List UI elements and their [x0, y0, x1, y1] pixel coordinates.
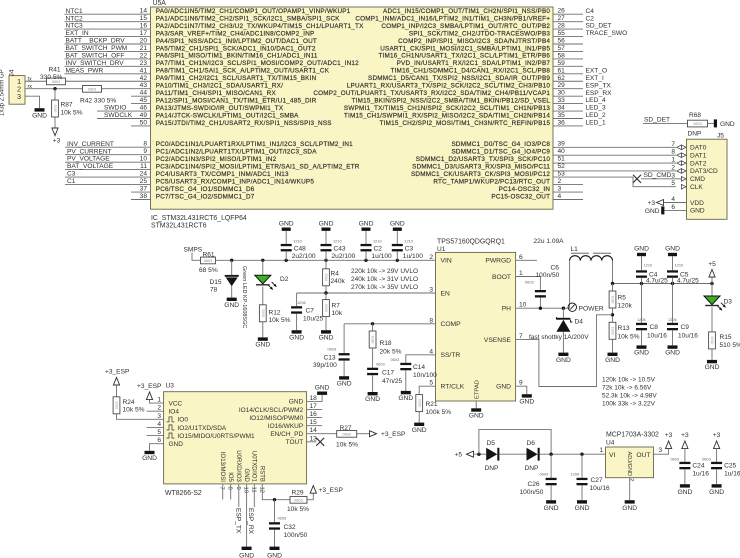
wire stub TOUT with no-fit cross: [307, 438, 325, 446]
svg-text:10u/16: 10u/16: [647, 332, 667, 339]
svg-text:SD_DET: SD_DET: [586, 23, 612, 30]
svg-text:BAT_SWITCH_PWM: BAT_SWITCH_PWM: [66, 45, 128, 52]
svg-text:GND: GND: [665, 350, 680, 357]
svg-text:50: 50: [140, 119, 148, 126]
svg-text:C7: C7: [306, 308, 315, 315]
svg-text:ESP_TX: ESP_TX: [586, 82, 612, 89]
wire (D5 to D6): [499, 453, 526, 455]
svg-text:29: 29: [558, 82, 566, 89]
svg-text:41: 41: [140, 67, 148, 74]
svg-text:100n/50: 100n/50: [520, 489, 544, 496]
svg-text:11: 11: [250, 487, 256, 493]
svg-text:72k 10k -> 6.56V: 72k 10k -> 6.56V: [602, 384, 652, 391]
svg-text:0603: 0603: [325, 273, 329, 281]
svg-text:PC15-OSC32_OUT: PC15-OSC32_OUT: [491, 193, 550, 200]
ground (C32): [270, 547, 280, 550]
svg-text:2: 2: [429, 254, 433, 261]
+3 supply arrow (below R87): [52, 128, 58, 136]
wire (rx junction to R87): [54, 89, 56, 100]
svg-text:GND: GND: [556, 357, 571, 364]
svg-text:+5: +5: [455, 452, 463, 459]
svg-text:D15: D15: [210, 279, 222, 286]
svg-text:R4: R4: [331, 270, 340, 277]
svg-text:PA13/JTMS-SWDIO/IR_OUT/SWPMI1_: PA13/JTMS-SWDIO/IR_OUT/SWPMI1_TX: [156, 105, 284, 112]
svg-text:D5: D5: [487, 440, 496, 447]
ground (ETPAD): [471, 408, 481, 411]
svg-text:53: 53: [558, 171, 566, 178]
svg-text:INV_CURRENT: INV_CURRENT: [67, 141, 114, 148]
svg-text:GND: GND: [544, 505, 559, 512]
svg-text:EN: EN: [441, 290, 450, 297]
svg-text:TIM15_CH1/SWPMI1_RX/SPI2_MISO/: TIM15_CH1/SWPMI1_RX/SPI2_MISO/I2C2_SDA/T…: [344, 112, 551, 119]
ground (C14): [401, 391, 411, 394]
svg-text:SD_DET: SD_DET: [644, 117, 670, 124]
regulator U1 TPS57160QDGQRQ1: [436, 239, 516, 401]
svg-text:LED_4: LED_4: [586, 97, 606, 104]
svg-text:0603: 0603: [261, 309, 265, 317]
svg-text:17: 17: [310, 403, 318, 410]
svg-text:R68: R68: [689, 112, 701, 119]
svg-text:SDMMC1_D5/CAN1_TX/SPI2_NSS/I2C: SDMMC1_D5/CAN1_TX/SPI2_NSS/I2C1_SDA/IR_O…: [368, 75, 550, 82]
svg-text:0603: 0603: [278, 516, 287, 521]
wire L1 to output rail: [612, 261, 614, 284]
svg-text:68 5%: 68 5%: [199, 267, 218, 274]
svg-text:15: 15: [140, 15, 148, 22]
wire BOOT to C6: [516, 277, 541, 291]
resistor R12: [259, 305, 290, 324]
svg-text:10: 10: [519, 302, 527, 309]
+3 supply arrow (left): [53, 138, 61, 145]
svg-text:330 5%: 330 5%: [40, 74, 63, 81]
diode D6 (DNP): [525, 440, 540, 472]
node SD_DET / resistor R68 (DNP): [643, 112, 735, 137]
+5 supply arrow (diode input): [455, 451, 487, 458]
svg-text:1u/100: 1u/100: [403, 253, 424, 260]
connector J5: [687, 133, 728, 220]
svg-text:PV_CURRENT: PV_CURRENT: [67, 148, 112, 155]
svg-text:2u2/100: 2u2/100: [292, 253, 316, 260]
svg-text:0603: 0603: [525, 280, 534, 285]
wire stubs U5A pins 2,3,4 (OSC32): [553, 185, 583, 200]
svg-text:100n/50: 100n/50: [284, 532, 308, 539]
svg-text:15: 15: [310, 419, 318, 426]
svg-text:4.7u/25: 4.7u/25: [677, 278, 699, 285]
svg-text:SWDCLK: SWDCLK: [104, 112, 133, 119]
svg-text:PWRGD: PWRGD: [485, 258, 511, 265]
svg-text:C3: C3: [405, 245, 414, 252]
svg-text:GND: GND: [469, 413, 484, 420]
svg-text:34: 34: [558, 105, 566, 112]
svg-text:PC1/ADC1IN2/LPUART1TX/LPTIM1_O: PC1/ADC1IN2/LPUART1TX/LPTIM1_OUT/I2C3_SD…: [156, 148, 317, 155]
wire PH node: [516, 261, 570, 310]
wire stubs U5A pins 44,45,50: [131, 96, 151, 126]
J5 data pin arrows: [677, 145, 686, 189]
svg-text:0603: 0603: [611, 296, 615, 304]
svg-text:C8: C8: [650, 324, 659, 331]
svg-text:1210: 1210: [333, 238, 342, 243]
ground (R21): [414, 423, 424, 426]
svg-text:1210: 1210: [675, 263, 684, 268]
wire bypass around D5 D6: [479, 429, 551, 454]
resistor R24: [113, 397, 145, 414]
svg-text:R42 330 5%: R42 330 5%: [80, 98, 116, 105]
wire (U3 GND pin 6 to ground): [150, 444, 164, 451]
regulator U4 MCP1703A-3302: [606, 431, 660, 477]
svg-text:PA3/SAR_VREF+/TIM2_CH4/ADC1IN8: PA3/SAR_VREF+/TIM2_CH4/ADC1IN8/COMP2_INP: [156, 30, 315, 37]
D4 note text: [529, 334, 589, 341]
ground (U1 pin 9): [522, 394, 532, 397]
svg-text:1206: 1206: [637, 317, 646, 322]
svg-text:RTC_TAMP1/WKUP2/PC13/RTC_OUT: RTC_TAMP1/WKUP2/PC13/RTC_OUT: [433, 178, 550, 185]
svg-text:J4: J4: [9, 69, 16, 76]
svg-text:PH: PH: [502, 306, 511, 313]
wire EN node: [297, 291, 436, 294]
svg-text:62: 62: [558, 75, 566, 82]
svg-text:PA2/ADC1IN7/TIM2_CH3/U2_TX/WKU: PA2/ADC1IN7/TIM2_CH3/U2_TX/WKUP4/TIM15_C…: [156, 23, 364, 30]
wire COMP node: [344, 322, 435, 325]
U5A pin numbers: [140, 8, 566, 200]
svg-text:4: 4: [157, 421, 161, 428]
svg-text:0603: 0603: [418, 399, 422, 407]
svg-text:IO0: IO0: [178, 417, 189, 424]
U4 pin numbers: [599, 447, 662, 481]
svg-text:C4: C4: [586, 8, 595, 15]
svg-text:17: 17: [140, 30, 148, 37]
svg-text:GND: GND: [677, 489, 692, 496]
svg-text:56: 56: [558, 38, 566, 45]
svg-text:PA9/TIM1_CH2/I2C1_SCL/USART1_T: PA9/TIM1_CH2/I2C1_SCL/USART1_TX/TIM15_BK…: [156, 75, 317, 82]
svg-text:GND: GND: [279, 220, 294, 227]
svg-text:9: 9: [143, 148, 147, 155]
svg-text:35: 35: [558, 112, 566, 119]
svg-text:LPUART1_RX/USART3_TX/SPI2_SCK/: LPUART1_RX/USART3_TX/SPI2_SCK/I2C2_SCL/T…: [347, 83, 551, 90]
svg-text:RT/CLK: RT/CLK: [441, 384, 465, 391]
svg-text:120k: 120k: [618, 303, 633, 310]
svg-text:C48: C48: [294, 245, 306, 252]
svg-text:0603: 0603: [391, 357, 400, 362]
svg-text:PA7/TIM1_CH1N/I2C3_SCL/SPI1_MO: PA7/TIM1_CH1N/I2C3_SCL/SPI1_MOSI/COMP2_O…: [156, 60, 359, 67]
svg-text:4.7u/25: 4.7u/25: [646, 278, 668, 285]
capacitor C5: [665, 246, 699, 285]
ground (C17): [368, 392, 378, 395]
svg-text:10u/16: 10u/16: [678, 332, 698, 339]
svg-text:INV_SWITCH_DRV: INV_SWITCH_DRV: [66, 60, 125, 67]
inductor L1: [534, 238, 613, 261]
+3_ESP supply arrow (R27): [357, 431, 406, 438]
svg-text:EN/CH_PD: EN/CH_PD: [270, 431, 303, 438]
svg-text:SWPMI1_TX/TIM15_CH1N/SPI2_SCK/: SWPMI1_TX/TIM15_CH1N/SPI2_SCK/I2C2_SCL/T…: [344, 105, 551, 112]
svg-text:SPI1_SCK/TIM2_CH2/JTDO-TRACESW: SPI1_SCK/TIM2_CH2/JTDO-TRACESWO/PB3: [409, 30, 551, 37]
ground (C26): [546, 500, 556, 503]
wire ESP_TX (U3 pin 9): [234, 484, 241, 534]
capacitor C7: [291, 293, 323, 330]
svg-text:10k 5%: 10k 5%: [336, 441, 358, 448]
resistor R27: [336, 425, 358, 448]
svg-text:R7: R7: [332, 302, 341, 309]
svg-text:C17: C17: [382, 369, 394, 376]
svg-text:11: 11: [140, 163, 147, 170]
svg-text:10u/25: 10u/25: [303, 316, 324, 323]
svg-text:tx: tx: [28, 77, 32, 83]
svg-text:1x3p 2.54mm GP: 1x3p 2.54mm GP: [0, 69, 6, 116]
svg-text:PC6/TSC_G4_IO1/SDMMC1_D6: PC6/TSC_G4_IO1/SDMMC1_D6: [156, 186, 255, 193]
ground (U3 pin 18): [315, 384, 330, 395]
svg-text:23: 23: [140, 60, 148, 67]
svg-text:GND: GND: [319, 334, 334, 341]
resistor R18: [369, 324, 401, 368]
svg-text:TPS57160QDGQRQ1: TPS57160QDGQRQ1: [437, 239, 505, 246]
svg-text:49: 49: [140, 112, 148, 119]
svg-text:46: 46: [140, 105, 148, 112]
svg-text:DNP: DNP: [485, 465, 500, 472]
svg-text:1206: 1206: [668, 317, 677, 322]
svg-text:IO13/MOSI: IO13/MOSI: [219, 452, 225, 482]
svg-text:6: 6: [157, 437, 161, 444]
svg-text:42: 42: [140, 75, 148, 82]
svg-text:Green LED KP-1608SGC: Green LED KP-1608SGC: [241, 266, 247, 328]
svg-text:LED_2: LED_2: [586, 112, 606, 119]
ground (U3 pin 6): [145, 451, 155, 454]
svg-text:240k 10k -> 31V UVLO: 240k 10k -> 31V UVLO: [351, 276, 418, 283]
U5A pin function labels: [156, 8, 551, 200]
svg-text:COMP1_INP/I2C3_SMBA/LPTIM1_OUT: COMP1_INP/I2C3_SMBA/LPTIM1_OUT/RTC_OUT/P…: [381, 23, 550, 30]
svg-text:12: 12: [258, 487, 264, 494]
svg-text:4: 4: [671, 196, 675, 203]
svg-text:C9: C9: [681, 324, 690, 331]
svg-text:NTC1: NTC1: [66, 8, 84, 15]
svg-text:6: 6: [671, 204, 675, 211]
svg-text:EXT_O: EXT_O: [586, 67, 608, 74]
connector J4: [9, 69, 25, 104]
svg-text:PA1/ADC1IN6/TIM2_CH2/SPI1_SCK/: PA1/ADC1IN6/TIM2_CH2/SPI1_SCK/I2C1_SMBA/…: [156, 15, 340, 22]
+3 supply arrow (U4 OUT): [665, 432, 673, 449]
svg-text:30: 30: [558, 90, 566, 97]
UVLO note text: [351, 268, 418, 291]
ground (U3 pin 10): [242, 547, 252, 550]
svg-text:VSENSE: VSENSE: [484, 337, 512, 344]
svg-text:R27: R27: [340, 425, 352, 432]
svg-text:C14: C14: [413, 364, 425, 371]
svg-text:J5: J5: [717, 133, 724, 140]
svg-text:DAT0: DAT0: [690, 145, 707, 152]
svg-text:EXT_IN: EXT_IN: [66, 30, 89, 37]
svg-text:0603: 0603: [702, 456, 711, 461]
svg-text:R21: R21: [426, 401, 438, 408]
svg-text:220k 10k -> 29V UVLO: 220k 10k -> 29V UVLO: [351, 268, 418, 275]
node SWDIO (pin 46): [97, 105, 151, 112]
svg-text:SDMMC1_D2/USART3_TX/SPI3_SCK/P: SDMMC1_D2/USART3_TX/SPI3_SCK/PC10: [416, 156, 551, 163]
svg-text:16: 16: [310, 411, 318, 418]
svg-text:U1: U1: [437, 246, 446, 253]
svg-text:28: 28: [558, 23, 566, 30]
svg-text:USART1_CK/SPI1_MOSI/I2C1_SMBA/: USART1_CK/SPI1_MOSI/I2C1_SMBA/LPTIM1_IN1…: [380, 45, 550, 52]
svg-text:0603: 0603: [540, 472, 549, 477]
svg-text:TIM16_CH1/SDMMC1_D4/CAN1_RX/I2: TIM16_CH1/SDMMC1_D4/CAN1_RX/I2C1_SCL/PB8: [390, 68, 550, 75]
svg-text:CLK: CLK: [690, 184, 703, 191]
svg-text:2: 2: [157, 405, 161, 412]
svg-text:1u/16: 1u/16: [692, 471, 709, 478]
svg-text:3: 3: [17, 92, 21, 101]
svg-text:SD_CMD: SD_CMD: [644, 172, 672, 179]
svg-text:57: 57: [558, 45, 566, 52]
svg-text:R41: R41: [49, 67, 61, 74]
ground (J5 GND pin): [645, 206, 687, 214]
wire SDMMC1_D3 (pin52 to DAT3/CD): [553, 170, 676, 172]
ground (R13): [608, 353, 618, 356]
wire (R42 to U5A pin 43): [102, 88, 151, 90]
svg-text:1: 1: [519, 270, 523, 277]
svg-text:GND: GND: [496, 384, 511, 391]
svg-text:20: 20: [140, 38, 148, 45]
svg-text:EXT_I: EXT_I: [586, 75, 604, 82]
svg-text:0603: 0603: [371, 336, 375, 344]
svg-text:25: 25: [140, 178, 148, 185]
wire SS/TR node: [406, 355, 436, 363]
svg-text:52: 52: [558, 163, 566, 170]
capacitor C17: [367, 361, 402, 392]
svg-text:PA11/TIM1_CH4/SPI1_MISO/CAN1_R: PA11/TIM1_CH4/SPI1_MISO/CAN1_RX: [156, 90, 277, 97]
svg-text:COMP1_INM/ADC1_IN16/LPTIM2_IN1: COMP1_INM/ADC1_IN16/LPTIM2_IN1/TIM1_CH3N…: [355, 15, 550, 22]
svg-text:3: 3: [671, 172, 675, 179]
svg-text:D2: D2: [280, 276, 289, 283]
svg-text:SDMMC1_CK/USART3_CK/SPI3_MOSI/: SDMMC1_CK/USART3_CK/SPI3_MOSI/PC12: [411, 171, 550, 178]
J4 mount label 1x3p 2.54mm GP: [0, 69, 6, 116]
svg-text:6: 6: [519, 254, 523, 261]
svg-text:GND: GND: [289, 334, 304, 341]
svg-text:LED_1: LED_1: [586, 120, 606, 127]
svg-text:IO16/WKUP: IO16/WKUP: [268, 423, 303, 430]
ground (C13): [339, 376, 349, 379]
svg-text:9: 9: [235, 487, 241, 490]
svg-text:1210: 1210: [293, 238, 302, 243]
svg-text:7: 7: [671, 141, 675, 148]
svg-text:GND: GND: [255, 342, 270, 349]
capacitor C24: [670, 432, 709, 496]
svg-text:5: 5: [157, 429, 161, 436]
svg-text:0603: 0603: [342, 432, 350, 436]
resistor R15: [709, 332, 740, 360]
resistor R7: [323, 293, 343, 330]
svg-text:C3: C3: [67, 171, 76, 178]
svg-text:R13: R13: [618, 325, 630, 332]
svg-text:18: 18: [310, 395, 318, 402]
svg-text:WT8266-S2: WT8266-S2: [165, 490, 202, 497]
svg-text:C26: C26: [528, 481, 540, 488]
svg-text:0603: 0603: [611, 327, 615, 335]
wire SDMMC1_D2 (pin51 to DAT2): [553, 162, 676, 164]
svg-text:IO15/MIDO/U0RTS/PWM1: IO15/MIDO/U0RTS/PWM1: [178, 433, 256, 440]
svg-text:0603: 0603: [670, 456, 679, 461]
svg-text:PC0/ADC1IN1/LPUART1RX/LPTIM1_I: PC0/ADC1IN1/LPUART1RX/LPTIM1_IN1/I2C3_SC…: [156, 141, 353, 148]
IC U5A STM32L431RCT6 (MCU): [151, 7, 554, 209]
svg-text:C13: C13: [324, 354, 336, 361]
svg-text:PA5/TIM2_CH1/SPI1_SCK/ADC1_IN1: PA5/TIM2_CH1/SPI1_SCK/ADC1_IN10/DAC1_OUT…: [156, 45, 316, 52]
svg-text:270k 10k -> 35V UVLO: 270k 10k -> 35V UVLO: [351, 284, 418, 291]
wire rx (J4 pin2 to R42, junction): [25, 84, 83, 90]
ground (R7): [321, 330, 331, 333]
U3 pin numbers: [157, 395, 317, 494]
svg-text:240k: 240k: [331, 278, 346, 285]
LED D3 (green): [704, 284, 732, 332]
svg-text:NTC3: NTC3: [66, 23, 84, 30]
wire ETPAD: [475, 401, 477, 408]
svg-text:1206: 1206: [297, 300, 306, 305]
wire (D2 to R12): [262, 287, 264, 305]
svg-text:78: 78: [210, 286, 218, 293]
svg-text:39p/100: 39p/100: [313, 362, 337, 369]
J5 pin numbers: [671, 141, 675, 211]
svg-text:0603: 0603: [54, 105, 58, 113]
svg-text:PC7/TSC_G4_IO2/SDMMC1_D7: PC7/TSC_G4_IO2/SDMMC1_D7: [156, 193, 255, 200]
feedback divider note text: [602, 376, 657, 407]
svg-text:+3: +3: [713, 432, 721, 439]
svg-text:GND: GND: [239, 553, 254, 558]
svg-text:1206: 1206: [571, 472, 580, 477]
svg-text:NTC2: NTC2: [66, 15, 84, 22]
capacitor C13: [313, 324, 350, 376]
svg-text:U5A: U5A: [153, 0, 167, 7]
svg-text:DAT1: DAT1: [690, 152, 707, 159]
svg-text:1: 1: [671, 157, 675, 164]
+3_ESP supply arrow (above R24): [105, 369, 130, 397]
svg-text:PA15/JTDI/TIM2_CH1/USART2_RX/S: PA15/JTDI/TIM2_CH1/USART2_RX/SPI1_NSS/SP…: [156, 120, 332, 127]
svg-text:39: 39: [558, 141, 566, 148]
wire RT/CLK node: [419, 386, 435, 394]
capacitor C6: [525, 265, 560, 309]
test point POWER: [568, 303, 604, 313]
svg-text:C2: C2: [586, 15, 595, 22]
svg-text:GND: GND: [605, 357, 620, 364]
svg-text:COMP2_INP/SPI1_MISO/I2C3_SDA/N: COMP2_INP/SPI1_MISO/I2C3_SDA/NJTRST/PB4: [398, 38, 550, 45]
svg-text:27: 27: [558, 15, 566, 22]
svg-text:IO5: IO5: [227, 472, 233, 482]
svg-text:U3: U3: [166, 383, 175, 390]
resistor R42: [80, 86, 116, 105]
+5 supply arrow (U1 output): [708, 261, 716, 283]
svg-text:8: 8: [429, 317, 433, 324]
svg-text:+3_ESP: +3_ESP: [381, 431, 406, 438]
svg-text:59: 59: [558, 60, 566, 67]
svg-text:PC5/USART3_RX/COMP1_INP/ADC1_I: PC5/USART3_RX/COMP1_INP/ADC1_IN14/WKUP5: [156, 178, 315, 185]
svg-text:36: 36: [558, 119, 566, 126]
wire (R87 to +3 arrow): [54, 117, 56, 128]
svg-text:ESP_RX: ESP_RX: [247, 508, 254, 535]
svg-text:L1: L1: [571, 246, 579, 253]
svg-text:1210: 1210: [404, 238, 413, 243]
svg-text:+5: +5: [708, 261, 716, 268]
svg-text:GND: GND: [398, 395, 413, 402]
svg-text:R5: R5: [618, 294, 627, 301]
svg-text:ESP_TX: ESP_TX: [234, 508, 241, 534]
svg-text:C27: C27: [591, 477, 603, 484]
svg-text:40: 40: [558, 148, 566, 155]
svg-text:58: 58: [558, 52, 566, 59]
svg-text:VDD: VDD: [690, 200, 704, 207]
svg-text:PA12/SPI1_MOSI/CAN1_TX/TIM1_ET: PA12/SPI1_MOSI/CAN1_TX/TIM1_ETR/U1_485_D…: [156, 97, 317, 104]
svg-text:PA4/SPI1_NSS/ADC1_IN9/LPTIM2_O: PA4/SPI1_NSS/ADC1_IN9/LPTIM2_OUT/DAC1_OU…: [156, 38, 317, 45]
svg-text:33: 33: [558, 97, 566, 104]
wire stub IO4: [147, 410, 164, 412]
wire stub PWRGD: [516, 259, 537, 261]
svg-text:SWDIO: SWDIO: [104, 105, 126, 112]
svg-text:GND: GND: [390, 220, 405, 227]
svg-text:GND: GND: [634, 350, 649, 357]
svg-text:SDMMC1_D3/USART3_RX/SPI3_MISO/: SDMMC1_D3/USART3_RX/SPI3_MISO/PC11: [412, 163, 550, 170]
svg-text:52.3k 10k -> 4.98V: 52.3k 10k -> 4.98V: [602, 392, 657, 399]
module U3 WT8266-S2: [164, 383, 307, 498]
capacitor C27: [571, 454, 611, 500]
svg-text:GND: GND: [337, 380, 352, 387]
